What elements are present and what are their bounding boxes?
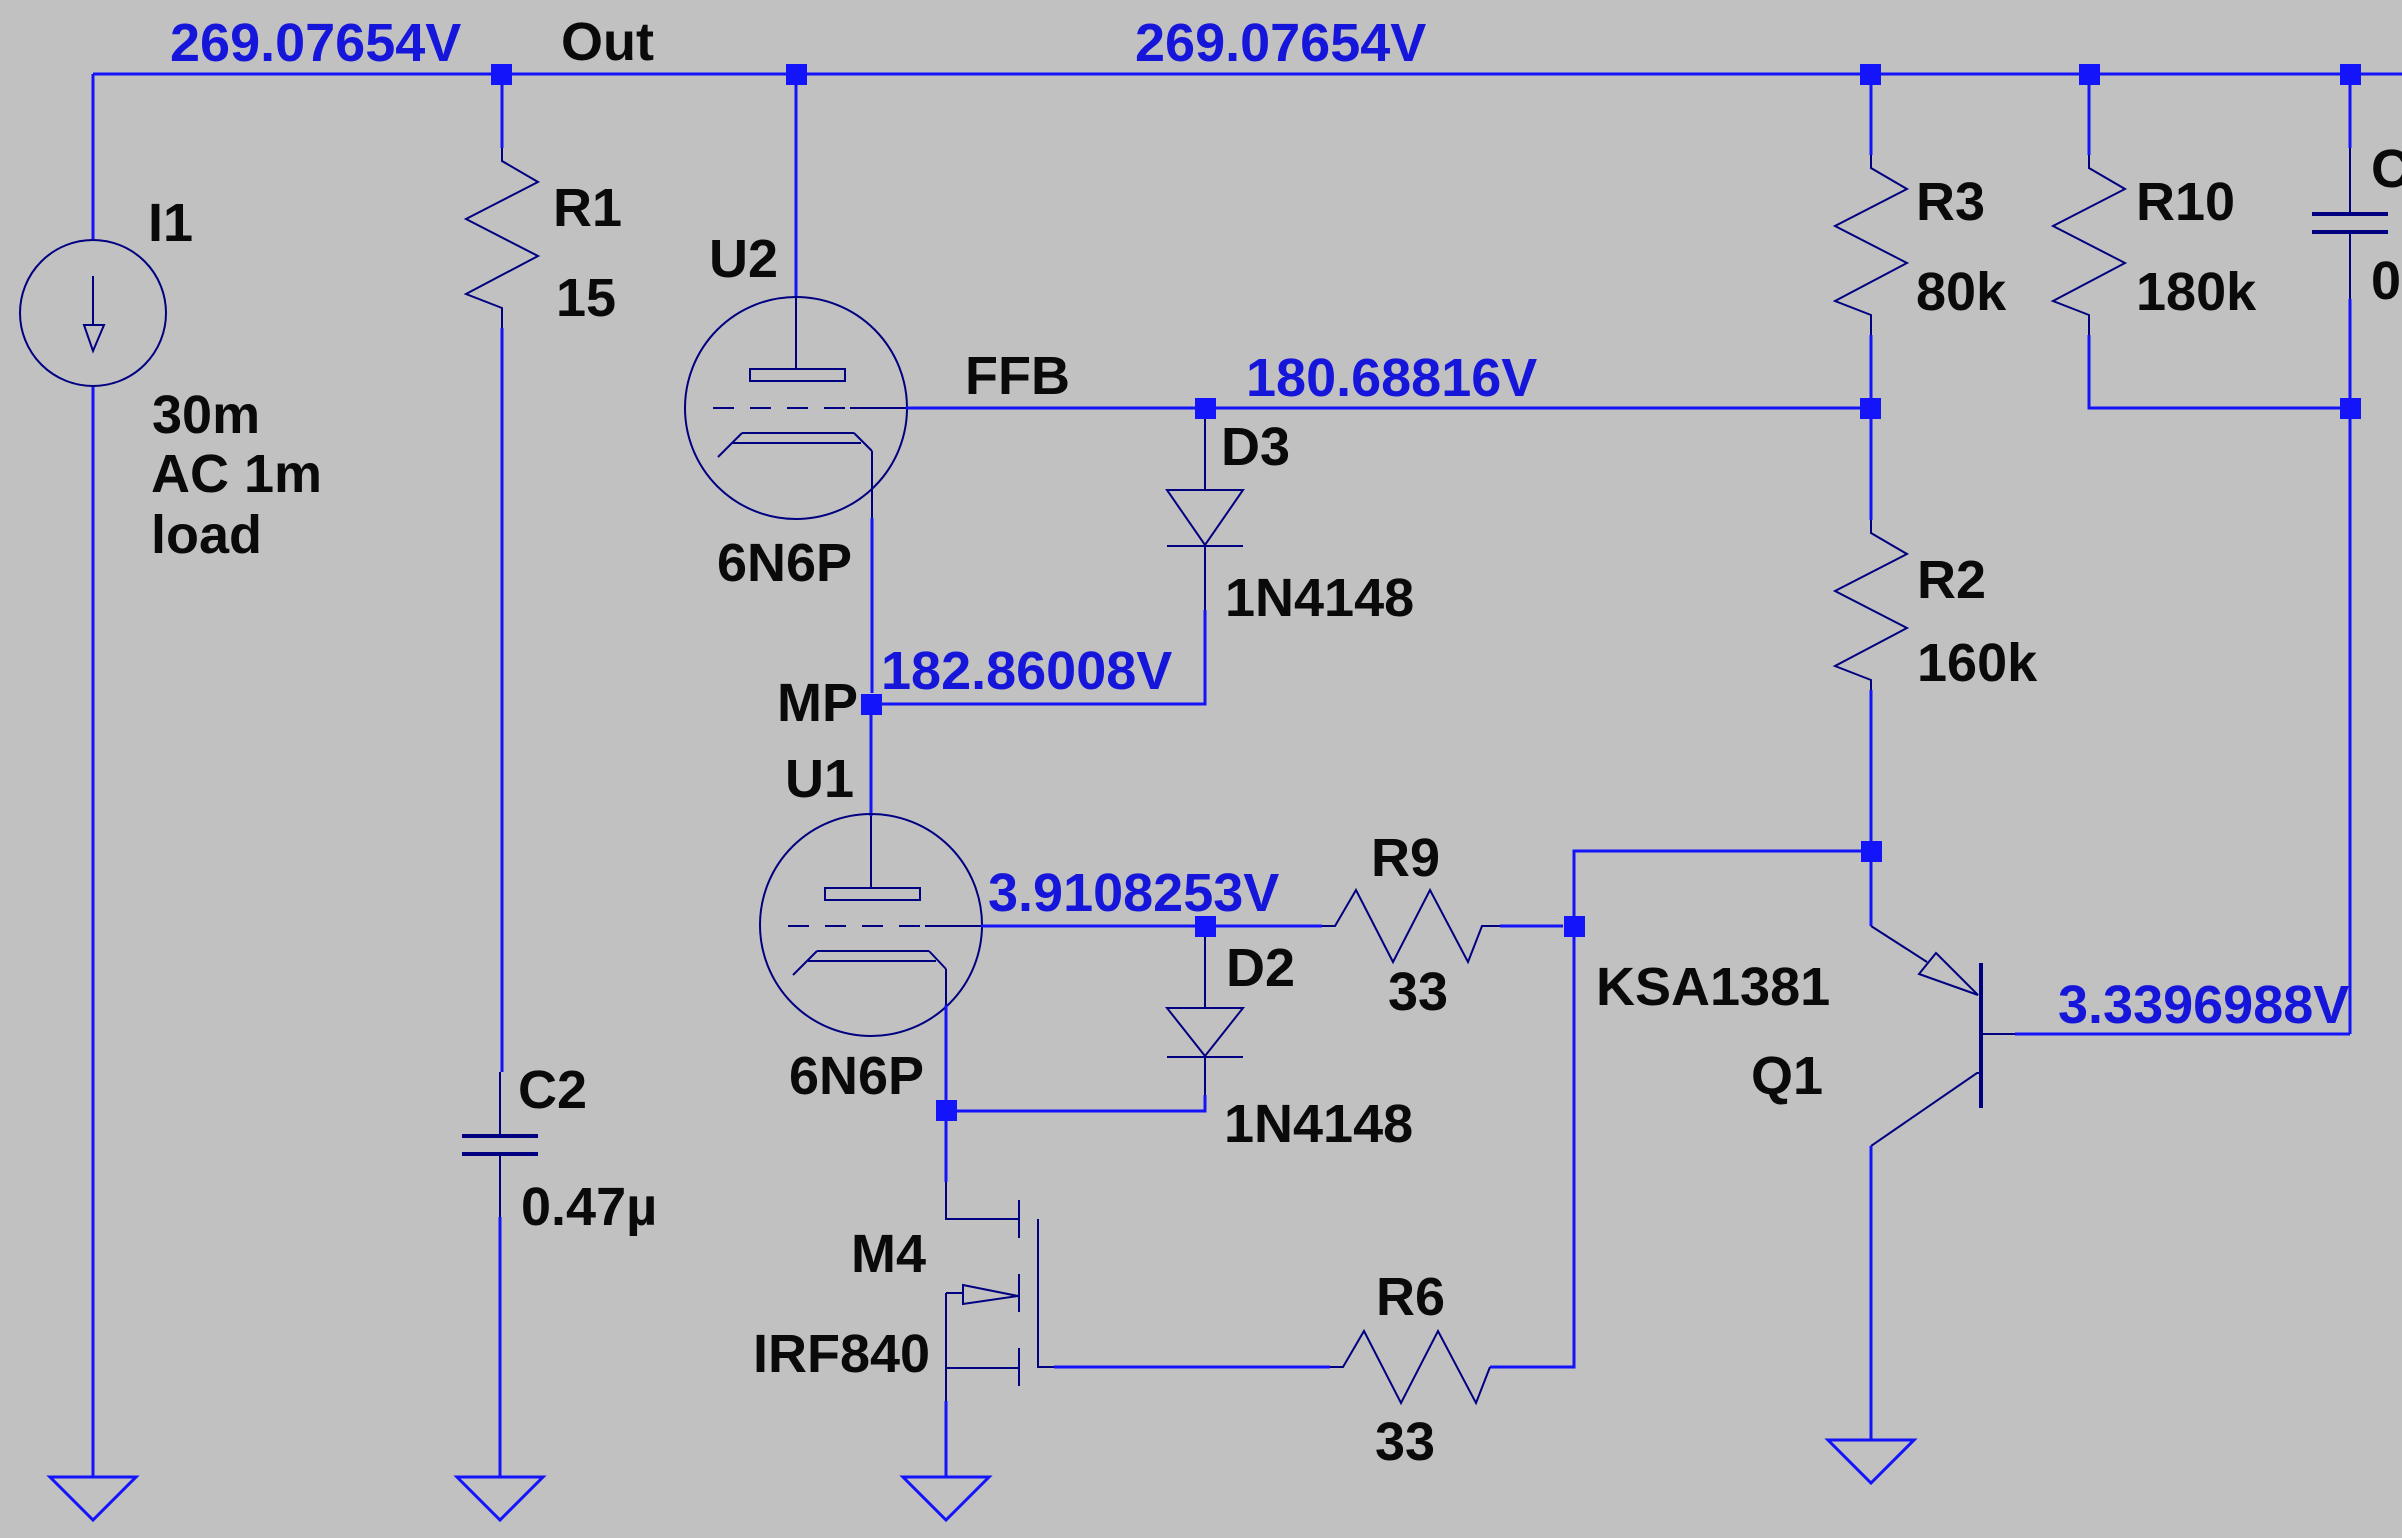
label I1 (148, 193, 193, 253)
wire R9 left lead (1216, 925, 1322, 928)
wire U1 anode lead (870, 715, 873, 816)
svg-text:15: 15 (556, 268, 616, 328)
svg-text:180k: 180k (2136, 262, 2257, 322)
wire top rail 269V (93, 73, 2402, 76)
label net MP (777, 673, 858, 733)
svg-text:D3: D3 (1221, 417, 1290, 477)
svg-text:MP: MP (777, 673, 858, 733)
triode U2 (685, 297, 907, 519)
svg-text:M4: M4 (851, 1224, 926, 1284)
label net FFB (965, 346, 1070, 406)
label R1 value 15 (556, 268, 616, 328)
svg-text:3.9108253V: 3.9108253V (988, 863, 1279, 923)
svg-text:R9: R9 (1371, 828, 1440, 888)
label D2 value 1N4148 (1224, 1094, 1413, 1154)
node FFB at D3 (1195, 398, 1216, 419)
svg-text:R6: R6 (1376, 1267, 1445, 1327)
label voltage 269.07654V left (170, 13, 461, 73)
svg-text:KSA1381: KSA1381 (1596, 957, 1830, 1017)
wire R9 right lead (1500, 925, 1563, 928)
svg-text:180.68816V: 180.68816V (1246, 348, 1537, 408)
label R6 value 33 (1375, 1412, 1435, 1472)
svg-text:U2: U2 (709, 229, 778, 289)
svg-text:6N6P: 6N6P (717, 533, 852, 593)
label R3 (1916, 172, 1985, 232)
label C2 (518, 1060, 587, 1120)
label voltage 182.86008V (881, 641, 1172, 701)
label C (cut) (2371, 139, 2402, 199)
label Q1 (1751, 1046, 1823, 1106)
mosfet M4 IRF840 (946, 1182, 1054, 1401)
label U1 (785, 749, 854, 809)
svg-text:D2: D2 (1226, 938, 1295, 998)
wire U1 grid lead (981, 925, 1205, 928)
label D3 (1221, 417, 1290, 477)
label voltage 180.68816V (1246, 348, 1537, 408)
svg-text:30m: 30m (152, 385, 260, 445)
label I1 value load (151, 505, 262, 565)
svg-text:C: C (2371, 139, 2402, 199)
wire R2 top lead (1870, 419, 1873, 520)
wire U2 grid to FFB (906, 407, 1205, 410)
svg-text:R1: R1 (553, 178, 622, 238)
resistor R2 (1835, 520, 1907, 690)
node FFB at R3/R2 (1860, 398, 1881, 419)
wire FFB to R3 node (1205, 407, 1871, 410)
svg-text:R10: R10 (2136, 172, 2235, 232)
wire R9 node down to R6 (1490, 937, 1574, 1367)
svg-text:80k: 80k (1916, 262, 2007, 322)
label M4 value IRF840 (753, 1324, 930, 1384)
label I1 value 30m (152, 385, 260, 445)
svg-text:33: 33 (1388, 962, 1448, 1022)
node R9 right (1564, 916, 1585, 937)
node R2 bottom / emitter (1861, 841, 1882, 862)
wire R2 bottom lead (1870, 690, 1873, 841)
resistor R10 (2053, 155, 2125, 335)
wire M4 source to R6 (1054, 1366, 1330, 1369)
wire U2 cathode to MP (871, 518, 874, 693)
svg-text:AC 1m: AC 1m (151, 444, 322, 504)
resistor R9 (1322, 890, 1500, 962)
ground (C2) (457, 1477, 543, 1520)
wire C bottom lead (2349, 299, 2352, 398)
wire R10 top lead (2088, 85, 2091, 155)
node R3 top rail (1860, 64, 1881, 85)
wire I1 top lead (92, 74, 95, 239)
wire U1 cathode down (945, 1005, 948, 1100)
node C bottom / R10 / base column (2340, 398, 2361, 419)
svg-text:Out: Out (561, 12, 654, 72)
label D2 (1226, 938, 1295, 998)
svg-text:0.: 0. (2371, 251, 2402, 311)
svg-text:Q1: Q1 (1751, 1046, 1823, 1106)
label R10 (2136, 172, 2235, 232)
label R2 value 160k (1917, 633, 2038, 693)
svg-text:load: load (151, 505, 262, 565)
node Out (491, 64, 512, 85)
label net Out (561, 12, 654, 72)
diode D2 (1167, 937, 1243, 1095)
svg-text:3.3396988V: 3.3396988V (2058, 975, 2349, 1035)
wire C2 bottom lead (499, 1217, 502, 1477)
resistor R3 (1835, 155, 1907, 335)
svg-text:R3: R3 (1916, 172, 1985, 232)
triode U1 (760, 814, 982, 1036)
svg-text:6N6P: 6N6P (789, 1046, 924, 1106)
wire U2 anode lead (795, 74, 798, 297)
wire R9 node up and right to R2 bottom node (1574, 851, 1871, 916)
wire R3 bottom lead (1870, 335, 1873, 398)
label R3 value 80k (1916, 262, 2007, 322)
svg-text:269.07654V: 269.07654V (1135, 13, 1426, 73)
label voltage 3.3396988V (2058, 975, 2349, 1035)
label voltage 3.9108253V (988, 863, 1279, 923)
svg-text:33: 33 (1375, 1412, 1435, 1472)
current source I1 (20, 240, 166, 386)
diode D3 (1167, 419, 1243, 610)
svg-text:I1: I1 (148, 193, 193, 253)
label R9 value 33 (1388, 962, 1448, 1022)
ground (I1) (50, 1477, 136, 1520)
wire R1 to C2 (501, 328, 504, 1072)
svg-text:0.47µ: 0.47µ (521, 1177, 657, 1237)
label C2 value 0.47u (521, 1177, 657, 1237)
node U2 anode rail (786, 64, 807, 85)
label R10 value 180k (2136, 262, 2257, 322)
label C value 0. (cut) (2371, 251, 2402, 311)
wire I1 bottom lead (92, 387, 95, 1477)
label U2 value 6N6P (717, 533, 852, 593)
label M4 (851, 1224, 926, 1284)
wire emitter lead (1870, 862, 1873, 926)
wire M4 drain from cathode node (945, 1121, 948, 1182)
label R2 (1917, 550, 1986, 610)
ground (M4) (903, 1477, 989, 1520)
wire M4 ground lead (945, 1401, 948, 1477)
wire Q1 collector down (1870, 1146, 1873, 1440)
wire cathode node to D2 bottom (957, 1095, 1205, 1111)
svg-text:IRF840: IRF840 (753, 1324, 930, 1384)
svg-text:1N4148: 1N4148 (1224, 1094, 1413, 1154)
svg-text:FFB: FFB (965, 346, 1070, 406)
svg-text:182.86008V: 182.86008V (881, 641, 1172, 701)
wire R1 top lead (501, 74, 504, 148)
wire Q1 base to right column (2015, 1033, 2350, 1036)
svg-text:R2: R2 (1917, 550, 1986, 610)
wire R3 top lead (1870, 85, 1873, 155)
capacitor C (right edge) (2312, 148, 2388, 299)
node U1 grid / R9 / D2 (1195, 916, 1216, 937)
node U1 cathode (936, 1100, 957, 1121)
label R1 (553, 178, 622, 238)
node R10 top rail (2079, 64, 2100, 85)
svg-text:269.07654V: 269.07654V (170, 13, 461, 73)
label D3 value 1N4148 (1225, 568, 1414, 628)
svg-text:1N4148: 1N4148 (1225, 568, 1414, 628)
label R6 (1376, 1267, 1445, 1327)
label voltage 269.07654V right (1135, 13, 1426, 73)
svg-text:160k: 160k (1917, 633, 2038, 693)
resistor R1 (466, 148, 538, 328)
label U1 value 6N6P (789, 1046, 924, 1106)
capacitor C2 (462, 1072, 538, 1217)
svg-text:C2: C2 (518, 1060, 587, 1120)
resistor R6 (1330, 1331, 1490, 1403)
wire MP to D3 bottom (882, 610, 1205, 704)
transistor Q1 KSA1381 (1871, 926, 2015, 1146)
wire base column vertical (2349, 419, 2352, 1034)
wire C top lead (2349, 85, 2352, 148)
label I1 value AC 1m (151, 444, 322, 504)
label U2 (709, 229, 778, 289)
wire R10 bottom jog to cap node (2089, 335, 2350, 408)
label R9 (1371, 828, 1440, 888)
node C top rail (2340, 64, 2361, 85)
node MP (861, 694, 882, 715)
ground (Q1) (1828, 1440, 1914, 1483)
label Q1 value KSA1381 (1596, 957, 1830, 1017)
svg-text:U1: U1 (785, 749, 854, 809)
